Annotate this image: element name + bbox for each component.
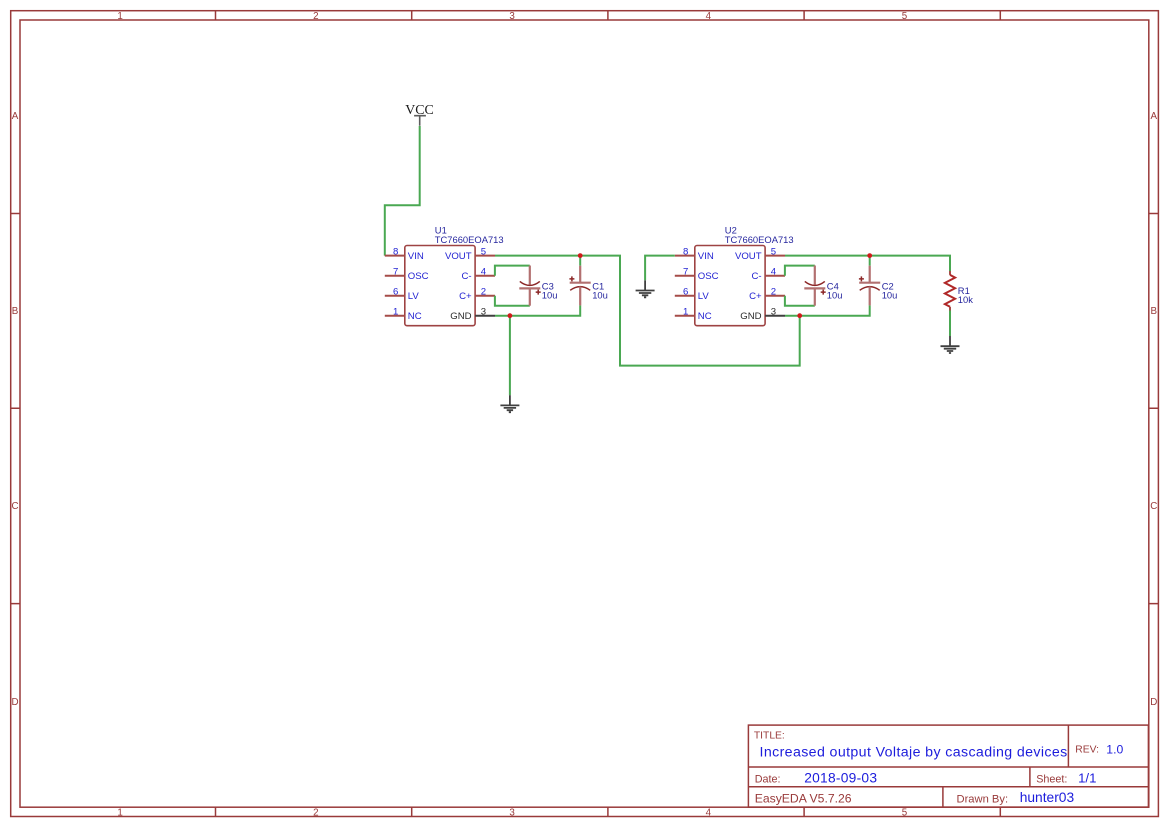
U2 pin 3 GND [740, 307, 785, 323]
svg-text:C: C [11, 501, 18, 512]
svg-text:4: 4 [706, 807, 712, 818]
svg-text:NC: NC [408, 311, 422, 322]
svg-text:A: A [12, 111, 19, 122]
svg-text:2018-09-03: 2018-09-03 [804, 771, 877, 786]
svg-text:2: 2 [771, 287, 776, 298]
svg-text:10u: 10u [592, 289, 608, 300]
svg-text:7: 7 [393, 267, 398, 278]
svg-text:C+: C+ [749, 291, 762, 302]
U1 pin 7 OSC [385, 267, 429, 283]
svg-text:LV: LV [408, 291, 420, 302]
ground below R1 [941, 336, 960, 353]
svg-text:Sheet:: Sheet: [1036, 773, 1067, 785]
svg-text:TC7660EOA713: TC7660EOA713 [435, 234, 504, 245]
U2 pin 5 VOUT [735, 247, 785, 263]
U2 pin 8 VIN [675, 247, 714, 263]
svg-text:6: 6 [683, 287, 688, 298]
svg-text:VOUT: VOUT [445, 251, 472, 262]
IC U2 TC7660EOA713 [695, 225, 794, 326]
node junction U2 GND / U1 VOUT [797, 313, 802, 318]
svg-text:1.0: 1.0 [1106, 742, 1123, 756]
svg-text:C-: C- [461, 271, 471, 282]
svg-text:3: 3 [509, 807, 515, 818]
node junction U1 VOUT / C1 [578, 253, 583, 258]
wire U1 GND to ground [509, 316, 511, 396]
svg-text:2: 2 [481, 287, 486, 298]
svg-text:Date:: Date: [755, 773, 781, 785]
svg-text:Drawn By:: Drawn By: [957, 793, 1009, 805]
svg-text:OSC: OSC [698, 271, 719, 282]
svg-text:1: 1 [117, 11, 122, 22]
U2 pin 2 C+ [749, 287, 785, 303]
svg-text:C-: C- [751, 271, 761, 282]
wire R1 to ground [949, 311, 951, 337]
svg-text:LV: LV [698, 291, 710, 302]
U2 pin 7 OSC [675, 267, 719, 283]
U2 pin 4 C- [751, 267, 785, 283]
svg-text:3: 3 [481, 307, 486, 318]
svg-text:5: 5 [481, 247, 486, 258]
svg-text:4: 4 [481, 267, 487, 278]
wire U2 GND net [785, 305, 870, 315]
svg-text:10u: 10u [542, 289, 558, 300]
U1 pin 2 C+ [459, 287, 495, 303]
svg-text:VOUT: VOUT [735, 251, 762, 262]
capacitor C1 10u [569, 266, 607, 306]
svg-text:4: 4 [706, 11, 712, 22]
wire U1 C+ to C3 bottom [495, 296, 530, 306]
svg-text:D: D [11, 697, 18, 708]
U2 pin 1 NC [675, 307, 712, 323]
svg-text:OSC: OSC [408, 271, 429, 282]
svg-text:Increased output Voltaje by ca: Increased output Voltaje by cascading de… [760, 744, 1068, 760]
svg-text:2: 2 [313, 11, 318, 22]
capacitor C4 10u [804, 266, 842, 306]
title block [748, 725, 1148, 807]
wire U2 VIN to ground [645, 256, 675, 281]
svg-text:B: B [12, 306, 19, 317]
node junction U2 VOUT / C2 [867, 253, 872, 258]
svg-text:1: 1 [683, 307, 688, 318]
svg-text:1: 1 [117, 807, 122, 818]
svg-text:VIN: VIN [408, 251, 424, 262]
U1 pin 1 NC [385, 307, 422, 323]
svg-text:10u: 10u [827, 289, 843, 300]
wire U2 C+ to C4 bottom [785, 296, 815, 306]
svg-text:GND: GND [450, 311, 471, 322]
power flag VCC [405, 103, 434, 126]
svg-text:REV:: REV: [1075, 744, 1099, 755]
svg-text:C: C [1150, 501, 1157, 512]
svg-text:1/1: 1/1 [1078, 771, 1096, 786]
capacitor C2 10u [859, 266, 897, 306]
wire C2 top tap [869, 256, 871, 266]
svg-text:B: B [1151, 306, 1158, 317]
svg-text:5: 5 [771, 247, 776, 258]
svg-text:VIN: VIN [698, 251, 714, 262]
wire VCC to U1 pin 8 [385, 126, 420, 256]
svg-text:3: 3 [509, 11, 515, 22]
svg-text:5: 5 [902, 807, 908, 818]
ground at U2 VIN [636, 280, 655, 297]
svg-text:1: 1 [393, 307, 398, 318]
U1 pin 4 C- [461, 267, 495, 283]
svg-text:5: 5 [902, 11, 908, 22]
svg-text:D: D [1150, 697, 1157, 708]
svg-text:4: 4 [771, 267, 777, 278]
svg-text:10u: 10u [882, 289, 898, 300]
wire U2 C- to C4 top [785, 266, 815, 276]
svg-text:A: A [1151, 111, 1158, 122]
svg-text:TC7660EOA713: TC7660EOA713 [725, 234, 794, 245]
U2 pin 6 LV [675, 287, 710, 303]
svg-text:10k: 10k [958, 294, 973, 305]
svg-text:8: 8 [393, 247, 398, 258]
U1 pin 3 GND [450, 307, 495, 323]
svg-text:8: 8 [683, 247, 688, 258]
svg-text:7: 7 [683, 267, 688, 278]
svg-text:TITLE:: TITLE: [754, 731, 785, 742]
wire C1 top tap [579, 256, 581, 266]
U1 pin 5 VOUT [445, 247, 495, 263]
wire U1 VOUT net [495, 256, 800, 366]
IC U1 TC7660EOA713 [405, 225, 504, 326]
wire U1 C- to C3 top [495, 266, 530, 276]
wire U2 VOUT net to R1 [785, 256, 950, 271]
capacitor C3 10u [519, 266, 557, 306]
svg-text:GND: GND [740, 311, 761, 322]
svg-text:3: 3 [771, 307, 776, 318]
resistor R1 10k [945, 271, 973, 311]
U1 pin 8 VIN [385, 247, 424, 263]
ground below U1 [500, 395, 519, 412]
U1 pin 6 LV [385, 287, 420, 303]
node junction U1 GND / ground [508, 313, 513, 318]
svg-text:C+: C+ [459, 291, 472, 302]
svg-text:EasyEDA V5.7.26: EasyEDA V5.7.26 [755, 792, 852, 806]
wire U1 GND net [495, 305, 580, 315]
svg-text:NC: NC [698, 311, 712, 322]
svg-text:2: 2 [313, 807, 318, 818]
svg-text:6: 6 [393, 287, 398, 298]
svg-text:hunter03: hunter03 [1020, 790, 1075, 805]
